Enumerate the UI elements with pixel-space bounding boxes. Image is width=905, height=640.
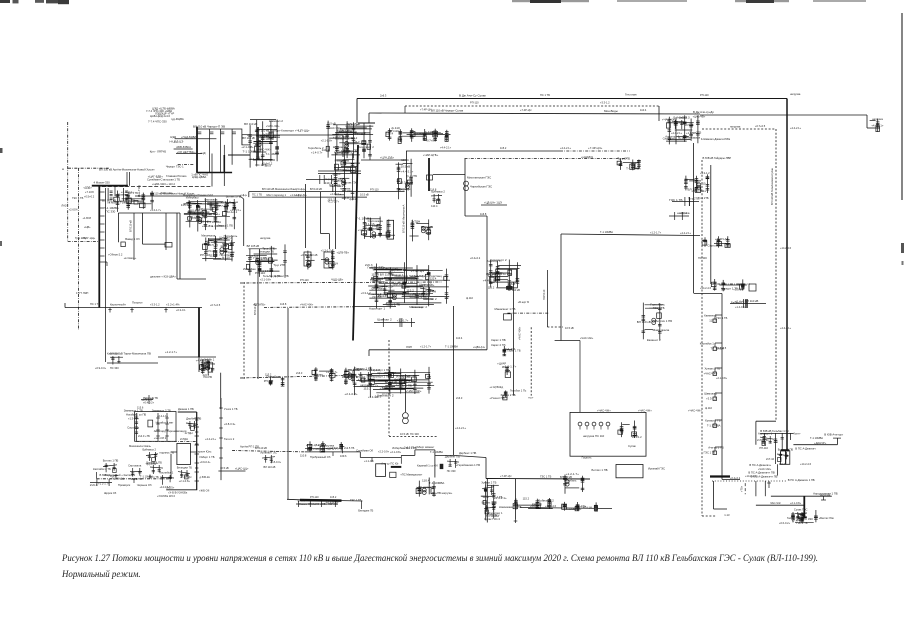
svg-text:ЛЭП 110: ЛЭП 110 bbox=[542, 289, 546, 300]
wire: tie bus to Sovkhoz cluster bbox=[353, 306, 396, 308]
svg-text:Чирюрт ГЭС-1: Чирюрт ГЭС-1 bbox=[166, 165, 184, 169]
svg-text:115.2: 115.2 bbox=[483, 495, 490, 499]
svg-text:ВЛ 110 кВ Чирюрт-Сулак: ВЛ 110 кВ Чирюрт-Сулак bbox=[431, 109, 464, 113]
block: link box to Kizilyurt bbox=[242, 135, 250, 145]
svg-text:+2.1-0.8+: +2.1-0.8+ bbox=[325, 500, 338, 504]
generator circle 2 bbox=[403, 418, 409, 424]
svg-text:Патриот: Патриот bbox=[132, 301, 143, 305]
svg-text:110.4: 110.4 bbox=[502, 365, 509, 369]
wire: thickish tie east bbox=[228, 154, 250, 156]
svg-text:+4.4-2.1+: +4.4-2.1+ bbox=[440, 146, 452, 150]
svg-text:2х6.3: 2х6.3 bbox=[352, 140, 359, 144]
svg-text:+1.4-0.7+: +1.4-0.7+ bbox=[311, 151, 323, 155]
wire: dash-dot Kirka tap bbox=[711, 283, 750, 285]
svg-text:115.2: 115.2 bbox=[523, 497, 530, 501]
svg-text:+1.2-1.7+: +1.2-1.7+ bbox=[650, 231, 662, 235]
svg-text:+ш+: +ш+ bbox=[528, 397, 534, 400]
cluster: small group bbox=[343, 368, 362, 385]
wire: jog east bbox=[465, 215, 487, 217]
svg-text:+1.1-0.4+: +1.1-0.4+ bbox=[147, 461, 159, 465]
svg-text:10.5 кВ: 10.5 кВ bbox=[327, 122, 336, 126]
svg-text:Ботлих 1 ПБ: Ботлих 1 ПБ bbox=[778, 448, 794, 452]
wire: dashed stub bbox=[744, 483, 746, 494]
svg-text:+УЗ-ЮБк 115.0: +УЗ-ЮБк 115.0 bbox=[157, 494, 176, 498]
cluster: east terminal substation bbox=[870, 118, 884, 132]
wire: Novokayakent line bbox=[520, 508, 612, 509]
bus: top rail bbox=[196, 128, 242, 130]
bus: Sulak top rail bbox=[358, 122, 375, 124]
component knot: below Kizilyurt-330 bus bbox=[431, 190, 445, 209]
svg-text:Дербент 1 ПБ: Дербент 1 ПБ bbox=[459, 451, 476, 455]
svg-text:+0.7+0.5: +0.7+0.5 bbox=[716, 346, 727, 350]
wire: dash-dot corridor 2 bbox=[78, 168, 80, 330]
svg-text:тХ-Б В-УЗ-ЮБк: тХ-Б В-УЗ-ЮБк bbox=[168, 490, 188, 494]
svg-text:Ирганай ГЭС: Ирганай ГЭС bbox=[260, 451, 276, 455]
cluster: Sulak GES bbox=[321, 121, 375, 160]
svg-text:7-7.4 ЧПС-330: 7-7.4 ЧПС-330 bbox=[148, 120, 167, 124]
bus: dark thick bar bbox=[391, 466, 402, 468]
wire: mid row 2 bbox=[174, 148, 193, 150]
block: tall box bbox=[387, 220, 394, 239]
svg-text:+ЧАС-ЧЖ+: +ЧАС-ЧЖ+ bbox=[370, 277, 384, 281]
wire: dashed corner east bbox=[389, 436, 437, 438]
tap with label bbox=[704, 367, 722, 376]
wire: Aerodromnaya line bbox=[771, 495, 832, 497]
wire: drop bbox=[485, 458, 487, 479]
svg-text:+Обнов-2.2: +Обнов-2.2 bbox=[108, 253, 123, 257]
svg-text:Леваши 1: Леваши 1 bbox=[357, 368, 370, 372]
svg-text:АБВ-ЮБКА: АБВ-ЮБКА bbox=[176, 145, 191, 149]
component: box bbox=[390, 472, 396, 477]
wire: Makhachkala pair line 1 bbox=[249, 191, 405, 193]
svg-text:Чиркейская ГЭС: Чиркейская ГЭС bbox=[470, 185, 492, 189]
wire: vertical stub bbox=[713, 481, 715, 509]
svg-text:Сергокала: Сергокала bbox=[663, 136, 678, 140]
block: TETs frame b bbox=[324, 252, 332, 268]
svg-text:ВЛ 110 кВ Махачкала-А: ВЛ 110 кВ Махачкала-А bbox=[402, 204, 406, 233]
svg-text:Гельбах 1 Пс: Гельбах 1 Пс bbox=[510, 389, 527, 393]
component knot: Shamkhal bay bbox=[671, 116, 688, 136]
svg-text:ГЭС 1 ТБ: ГЭС 1 ТБ bbox=[796, 521, 808, 525]
svg-text:Т-1 10МВА: Т-1 10МВА bbox=[600, 230, 613, 234]
svg-text:ВЛ 110 кВ: ВЛ 110 кВ bbox=[688, 188, 702, 192]
wire: continue bbox=[401, 454, 415, 456]
svg-text:1777 ЛЭП: 1777 ЛЭП bbox=[76, 291, 88, 295]
svg-text:Каранай 1 со Об: Каранай 1 со Об bbox=[417, 464, 438, 468]
svg-text:110.4: 110.4 bbox=[401, 158, 409, 162]
svg-text:Тр-р 2ТБ: Тр-р 2ТБ bbox=[75, 236, 86, 240]
wire: TETs vertical east bbox=[335, 197, 337, 249]
svg-text:Радуга 1 ТБ: Радуга 1 ТБ bbox=[143, 396, 158, 400]
svg-text:+2.1-0.8+: +2.1-0.8+ bbox=[790, 501, 802, 505]
svg-text:115.2: 115.2 bbox=[209, 253, 217, 257]
svg-text:10.5 кВ: 10.5 кВ bbox=[125, 198, 135, 202]
svg-text:Т-1 10МВА: Т-1 10МВА bbox=[140, 475, 153, 479]
svg-text:10.5 кВ: 10.5 кВ bbox=[401, 165, 411, 169]
svg-text:Сергокала: Сергокала bbox=[128, 464, 142, 468]
bus: Kizilyurt top rail bbox=[250, 119, 276, 121]
svg-text:110.4: 110.4 bbox=[110, 474, 117, 478]
svg-text:Вавед 1 Об: Вавед 1 Об bbox=[125, 237, 140, 241]
svg-text:+14.2-4.6: +14.2-4.6 bbox=[800, 462, 812, 466]
svg-text:+1.1-0.5: +1.1-0.5 bbox=[364, 459, 374, 463]
wire: mid row 3 bbox=[176, 153, 202, 155]
svg-text:ф.110: ф.110 bbox=[333, 172, 341, 176]
wire: left corner bbox=[248, 192, 250, 198]
wire: bay 3 bbox=[781, 433, 783, 450]
wire: vertical pair b bbox=[179, 213, 181, 279]
svg-text:703-ПБ: 703-ПБ bbox=[203, 375, 212, 379]
wire: long vertical Makhachkala-Leninkent bbox=[406, 151, 408, 283]
wire: dashed corner bbox=[702, 515, 716, 517]
component: Kirka box bbox=[749, 284, 756, 291]
wire: bay 1 bbox=[763, 433, 765, 444]
wire: jog bbox=[321, 233, 330, 235]
svg-text:В ЮВ Ачи-юрт: В ЮВ Ачи-юрт bbox=[824, 433, 844, 437]
svg-text:Прибрежный Об: Прибрежный Об bbox=[310, 455, 331, 459]
wire: drop bbox=[360, 501, 362, 509]
svg-text:+1.2-1.7+: +1.2-1.7+ bbox=[165, 350, 177, 354]
cluster: Derbent north bbox=[562, 502, 598, 512]
svg-text:+3.3-1.2: +3.3-1.2 bbox=[632, 435, 642, 439]
svg-text:+ЦГВ-ПБ+: +ЦГВ-ПБ+ bbox=[337, 251, 350, 255]
svg-text:Мамедкала: Мамедкала bbox=[686, 135, 701, 139]
component knot: Tarki bay bbox=[200, 358, 215, 378]
svg-text:нагрузка: нагрузка bbox=[677, 211, 690, 215]
svg-text:В ПС А-Джангач 1 ПБ: В ПС А-Джангач 1 ПБ bbox=[788, 478, 815, 482]
wire: dashed parallel column bbox=[530, 327, 532, 395]
svg-text:Новокаякент 1 ПБ: Новокаякент 1 ПБ bbox=[499, 505, 522, 509]
svg-text:ВЛ 330 кВ Артём-Махачкала-Новы: ВЛ 330 кВ Артём-Махачкала-Новый Хушет bbox=[99, 168, 155, 172]
cluster: Kizilyurt substation bbox=[241, 119, 283, 167]
svg-text:+ЧАС-ЧЖ+: +ЧАС-ЧЖ+ bbox=[406, 389, 422, 393]
generator circle 1 bbox=[403, 413, 409, 419]
cluster: inner load taps bbox=[618, 421, 642, 440]
svg-text:+0.4+0.2: +0.4+0.2 bbox=[330, 446, 341, 450]
svg-text:Аэропорт 2 ПБ: Аэропорт 2 ПБ bbox=[371, 375, 390, 379]
block: Achi-su frame bbox=[376, 464, 386, 477]
svg-text:м: м bbox=[62, 167, 64, 171]
svg-text:ВЛ 105 кВ: ВЛ 105 кВ bbox=[247, 244, 260, 248]
wire: continuation bbox=[342, 500, 363, 502]
component: box bbox=[121, 242, 125, 247]
tap with label bbox=[704, 446, 724, 455]
svg-text:110.4: 110.4 bbox=[456, 336, 463, 340]
svg-text:Тал-ги 2: Тал-ги 2 bbox=[224, 437, 235, 441]
wire: vertical link south bbox=[464, 159, 466, 217]
svg-text:+ТБ+: +ТБ+ bbox=[741, 485, 744, 492]
wire: line 3 east extension bbox=[700, 114, 867, 116]
cluster: Leva group b bbox=[669, 197, 699, 206]
svg-text:Приморск: Приморск bbox=[118, 483, 131, 487]
svg-text:Мин-Воды: Мин-Воды bbox=[604, 109, 618, 113]
svg-text:ф.110: ф.110 bbox=[222, 255, 230, 259]
wire: Kirpichny feeder line bbox=[65, 307, 202, 309]
svg-text:Махачкала: Махачкала bbox=[409, 305, 423, 309]
svg-text:+4.4-2.1+: +4.4-2.1+ bbox=[209, 212, 221, 216]
svg-text:+2.1-0.8+: +2.1-0.8+ bbox=[575, 504, 587, 508]
bus: thick vertical 1 bbox=[196, 127, 198, 173]
wire: main dark vertical bbox=[196, 412, 198, 490]
svg-text:Буйнакск 2: Буйнакск 2 bbox=[674, 116, 688, 120]
svg-text:Шамхал 2: Шамхал 2 bbox=[377, 318, 392, 322]
wire: main right vertical (Gelbakh feeder) bbox=[786, 99, 788, 451]
svg-text:Н-ЦВД-ЦЭ: Н-ЦВД-ЦЭ bbox=[170, 140, 184, 144]
generator circles row inside block bbox=[578, 422, 582, 426]
wire: down a bbox=[755, 481, 757, 496]
wire: coastal solid bbox=[305, 451, 360, 453]
svg-text:+0.3-0.1: +0.3-0.1 bbox=[176, 308, 186, 312]
svg-text:РП-110: РП-110 bbox=[310, 495, 319, 499]
wire: dashed 110kV line 2 bbox=[405, 105, 659, 107]
svg-text:110.4: 110.4 bbox=[779, 462, 786, 466]
wire: through bbox=[377, 457, 401, 459]
svg-text:ф.110: ф.110 bbox=[298, 499, 306, 503]
svg-text:+ПС Мамедкала+: +ПС Мамедкала+ bbox=[400, 473, 423, 477]
wire: spur bbox=[481, 204, 507, 206]
svg-text:Мамедкала: Мамедкала bbox=[653, 328, 670, 332]
svg-text:Мамедкала: Мамедкала bbox=[335, 158, 350, 162]
svg-text:+7.4Р-ЦЧ: +7.4Р-ЦЧ bbox=[190, 211, 202, 215]
svg-text:Шамхал 2: Шамхал 2 bbox=[219, 236, 232, 240]
svg-text:+0.4+0.2: +0.4+0.2 bbox=[470, 256, 481, 260]
svg-text:+2.1-0.8+: +2.1-0.8+ bbox=[260, 278, 272, 282]
svg-text:110.4: 110.4 bbox=[325, 181, 332, 185]
wire: vertical 4 bbox=[165, 213, 167, 250]
component knot: Sovkhoz bay 2 bbox=[419, 283, 434, 302]
cluster: corridor tap mid-west bbox=[264, 374, 285, 386]
svg-text:+14.2-4.6: +14.2-4.6 bbox=[700, 286, 712, 290]
wire: long dash-dot mid corridor bbox=[240, 282, 442, 283]
svg-text:+4.4-2.1+: +4.4-2.1+ bbox=[202, 224, 214, 228]
svg-text:ф.110: ф.110 bbox=[705, 406, 713, 410]
svg-text:ВЛ 110 кВ: ВЛ 110 кВ bbox=[637, 320, 651, 324]
svg-text:+ЧАС-ЧЖ+: +ЧАС-ЧЖ+ bbox=[517, 326, 521, 340]
svg-text:нагрузка: нагрузка bbox=[820, 494, 831, 497]
svg-text:Тарки 1 ТБ: Тарки 1 ТБ bbox=[385, 303, 400, 307]
svg-text:10.5 кВ: 10.5 кВ bbox=[206, 249, 215, 253]
component knot: city sub 2 bbox=[204, 198, 221, 217]
wire: end riser bbox=[836, 438, 838, 445]
svg-text:110.4: 110.4 bbox=[640, 108, 647, 112]
bus: Makhachkala-330 horizontal busbar bbox=[92, 185, 128, 187]
svg-text:ВЛ 110 кВ: ВЛ 110 кВ bbox=[244, 122, 257, 126]
wire: vertical mid bbox=[320, 192, 322, 234]
wire: generator feeder bbox=[404, 374, 406, 412]
wire: stub bbox=[404, 106, 406, 113]
component knot: airport bay bbox=[357, 368, 372, 388]
wire: vertical pair a bbox=[176, 213, 178, 279]
svg-text:7-7.4 ЧПС-330 +ЦВД: 7-7.4 ЧПС-330 +ЦВД bbox=[146, 109, 172, 113]
wire: Tarki tie bbox=[158, 356, 216, 358]
component knot: south sub bbox=[146, 461, 163, 480]
svg-text:+4.4-2.1+: +4.4-2.1+ bbox=[780, 326, 792, 330]
wire: loop top bbox=[555, 340, 580, 342]
tap with label bbox=[704, 314, 722, 323]
svg-text:Кизилюрт 2: Кизилюрт 2 bbox=[377, 393, 394, 397]
bus: thick bottom busbar bbox=[300, 499, 342, 502]
svg-text:ЦАБ-ЦЖД 2х4.6: ЦАБ-ЦЖД 2х4.6 bbox=[150, 114, 171, 118]
svg-text:+4.4-2.1+: +4.4-2.1+ bbox=[483, 278, 496, 282]
svg-text:+0.4-0.2+: +0.4-0.2+ bbox=[143, 401, 155, 405]
svg-text:РП-110: РП-110 bbox=[470, 101, 479, 105]
component knot: south group b bbox=[177, 466, 192, 484]
svg-text:РП-110: РП-110 bbox=[356, 132, 366, 136]
cluster: tap knot 4 bbox=[501, 389, 527, 400]
wire: top corner bbox=[178, 411, 197, 413]
block: Izberbash upper frame bbox=[135, 412, 176, 442]
svg-text:Тр-р 2ТБ: Тр-р 2ТБ bbox=[698, 196, 709, 200]
svg-text:Ботлих 1 ПБ: Ботлих 1 ПБ bbox=[656, 319, 673, 323]
svg-text:ПС 330: ПС 330 bbox=[110, 366, 119, 370]
svg-text:115.2: 115.2 bbox=[220, 244, 227, 248]
svg-text:Гельбах 1 Пс: Гельбах 1 Пс bbox=[368, 266, 386, 270]
bus: thick bay 5 lower bbox=[223, 155, 225, 172]
wire: continue east bbox=[435, 454, 453, 456]
cluster: west end comps bbox=[90, 479, 112, 487]
wire: inner bay 1 bbox=[157, 413, 159, 441]
svg-text:+14.2-4.6: +14.2-4.6 bbox=[745, 474, 757, 478]
svg-text:Каспийск 1: Каспийск 1 bbox=[700, 342, 715, 346]
svg-text:+4.4-2.1+: +4.4-2.1+ bbox=[790, 126, 802, 130]
cluster: mid-right knot bbox=[637, 303, 673, 343]
svg-text:2хТДН: 2хТДН bbox=[342, 375, 351, 379]
component knot: Gelbakh bay a bbox=[758, 432, 774, 451]
svg-text:115.2: 115.2 bbox=[406, 288, 414, 292]
svg-text:нагрузка: нагрузка bbox=[730, 126, 741, 129]
wire: corner to east bbox=[241, 129, 243, 145]
cluster: Sergokala head group bbox=[483, 258, 521, 292]
cluster: Tarnair group bbox=[356, 216, 395, 239]
svg-text:2х2.5: 2х2.5 bbox=[131, 477, 138, 481]
svg-text:+3.3-1.2: +3.3-1.2 bbox=[150, 303, 160, 307]
wire: dash-dot spur to Makhachkala left bank bbox=[465, 158, 629, 160]
wire: down to bays bbox=[328, 234, 330, 249]
svg-text:+7.4Р-ЦЧ: +7.4Р-ЦЧ bbox=[500, 474, 512, 478]
svg-text:Гергебиль: Гергебиль bbox=[564, 479, 577, 483]
svg-text:В ПС А-Джангач+: В ПС А-Джангач+ bbox=[749, 463, 771, 467]
svg-text:болт+: болт+ bbox=[793, 432, 801, 436]
svg-text:+Учкент ПБ: +Учкент ПБ bbox=[489, 396, 504, 400]
wire: mid horizontal tie bbox=[369, 349, 487, 351]
svg-text:2х6.3: 2х6.3 bbox=[296, 371, 303, 375]
bus: Kizilyurt thick vertical bbox=[257, 127, 259, 160]
svg-text:+ЧАС-ЧЖ+: +ЧАС-ЧЖ+ bbox=[638, 409, 652, 413]
svg-text:Ачи-су 1 ПБ: Ачи-су 1 ПБ bbox=[396, 384, 412, 388]
svg-text:Тр-р 2ТБ: Тр-р 2ТБ bbox=[617, 156, 630, 160]
bus: bottom thick rail bbox=[196, 172, 232, 174]
cluster: Makhachkala left bank bbox=[617, 156, 641, 170]
svg-text:+ЦЦАБ%: +ЦЦАБ% bbox=[581, 155, 593, 159]
svg-text:+ЧАС-ЧЖ+: +ЧАС-ЧЖ+ bbox=[300, 303, 314, 307]
svg-text:+4.4-2.1+: +4.4-2.1+ bbox=[871, 123, 884, 127]
wire: Khunzakh west tie bbox=[287, 498, 300, 501]
svg-text:ГЭС 1 ТБ: ГЭС 1 ТБ bbox=[187, 216, 201, 220]
tap with label bbox=[704, 392, 722, 401]
svg-text:+х ЦУБЖд: +х ЦУБЖд bbox=[489, 385, 503, 389]
wire: vertical 2 bbox=[142, 213, 144, 244]
bus: bottom bar bbox=[802, 516, 807, 518]
svg-text:Тр-р 2ТБ: Тр-р 2ТБ bbox=[406, 174, 417, 178]
svg-text:ЦЭД-ЦБВА: ЦЭД-ЦБВА bbox=[192, 175, 206, 179]
cluster: Airport group bbox=[342, 367, 434, 399]
svg-text:116.8: 116.8 bbox=[480, 212, 487, 216]
cluster: Novokayakent bbox=[513, 497, 554, 510]
wire: lower tie west bbox=[118, 212, 180, 214]
wire: bottom tie bbox=[177, 278, 206, 280]
cluster: Novy Khushet taps bbox=[102, 190, 154, 213]
cluster: Kizilyurt-330 west bay bbox=[396, 158, 418, 199]
svg-text:гуд-ФЦВА: гуд-ФЦВА bbox=[171, 117, 184, 121]
cluster: Sergokala east tap bbox=[702, 236, 730, 248]
cluster: small tap row bbox=[374, 318, 415, 327]
svg-text:+1.2-1.7+: +1.2-1.7+ bbox=[328, 199, 340, 203]
svg-text:+ГЦД-БДВА: +ГЦД-БДВА bbox=[181, 135, 197, 139]
svg-text:10.5 кВ: 10.5 кВ bbox=[208, 243, 218, 247]
svg-text:+7.1Об: +7.1Об bbox=[85, 190, 94, 194]
svg-text:Ь Шамхал-Джанги-ЮБк: Ь Шамхал-Джанги-ЮБк bbox=[701, 137, 731, 141]
svg-text:+ДЭД+: +ДЭД+ bbox=[83, 185, 92, 189]
wire: Achi-yurt spur bbox=[793, 444, 837, 446]
wire: dashed VL-110-199 under repair bbox=[775, 129, 777, 421]
svg-text:+1.2-1.7+: +1.2-1.7+ bbox=[420, 345, 432, 349]
svg-text:нагрузка: нагрузка bbox=[872, 118, 883, 121]
wire: pair to Sulak b bbox=[318, 173, 361, 175]
svg-text:2х4.0 +ТБ: 2х4.0 +ТБ bbox=[138, 434, 150, 438]
wire: long vertical south bbox=[721, 294, 723, 480]
cluster: top mid boxes bbox=[386, 126, 451, 143]
svg-text:ф.110: ф.110 bbox=[391, 126, 400, 130]
svg-text:+Белгат Юж: +Белгат Юж bbox=[819, 516, 834, 520]
svg-text:Тр-р 2ТБ: Тр-р 2ТБ bbox=[273, 263, 285, 267]
component: Primorskaya box bbox=[165, 243, 172, 248]
svg-text:Буйнакск 2: Буйнакск 2 bbox=[431, 190, 445, 194]
svg-text:нагрузка: нагрузка bbox=[260, 237, 271, 240]
component: dark box bbox=[506, 286, 512, 290]
svg-text:Тарки 1 ТБ: Тарки 1 ТБ bbox=[507, 349, 521, 353]
wire: drop to Sulak bus bbox=[356, 99, 358, 124]
svg-text:Буйнакск 2: Буйнакск 2 bbox=[143, 448, 157, 452]
svg-text:+0.7+0.5: +0.7+0.5 bbox=[301, 253, 313, 257]
svg-text:+14.2-4.6: +14.2-4.6 bbox=[780, 246, 792, 250]
svg-text:Щорса Об: Щорса Об bbox=[104, 491, 117, 495]
svg-text:Т-1 10МВА: Т-1 10МВА bbox=[810, 436, 823, 440]
svg-text:Изберг момент: Изберг момент bbox=[416, 445, 436, 449]
svg-text:ПС 330: ПС 330 bbox=[373, 295, 382, 299]
svg-text:116.8: 116.8 bbox=[280, 302, 287, 306]
component knot: Derbent tap bbox=[445, 455, 460, 474]
cluster: Leva group a bbox=[684, 174, 709, 193]
wire: tie to box bbox=[143, 243, 166, 245]
component knot: Kaspiysk sub bbox=[103, 459, 119, 478]
svg-text:+2.1-0.8+: +2.1-0.8+ bbox=[390, 450, 402, 454]
svg-text:В ПС А-Джангач+ ПВ: В ПС А-Джангач+ ПВ bbox=[748, 471, 774, 475]
svg-text:Тр-р 2ТБ: Тр-р 2ТБ bbox=[422, 225, 433, 229]
wire: corner east bbox=[722, 478, 740, 480]
wire: down riser bbox=[434, 450, 436, 478]
cluster: TETs 1 bays bbox=[301, 251, 318, 270]
cluster: south city substations bbox=[200, 234, 238, 261]
wire: dashed vertical feeder Gaidary bbox=[701, 160, 703, 516]
svg-text:+ЦД-ЦЧ+ 1ЦЭ: +ЦД-ЦЧ+ 1ЦЭ bbox=[484, 201, 502, 205]
wire: feeder down to dashed line bbox=[211, 154, 213, 187]
svg-text:дальние + ЮЗ-ЦВА+: дальние + ЮЗ-ЦВА+ bbox=[150, 275, 176, 279]
svg-text:+7.4Р-ЦЧ+: +7.4Р-ЦЧ+ bbox=[588, 146, 603, 150]
bus: thick vertical south bbox=[98, 186, 100, 308]
wire: Kaspiysk south line bbox=[97, 478, 171, 480]
wire stub bbox=[96, 472, 98, 479]
svg-text:+Герейханово 1 ПБ: +Герейханово 1 ПБ bbox=[456, 463, 480, 467]
